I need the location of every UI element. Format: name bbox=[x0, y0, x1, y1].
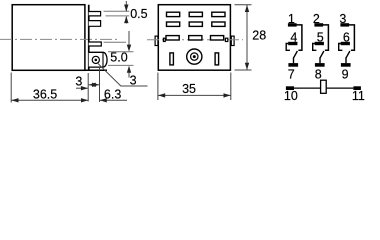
svg-text:10: 10 bbox=[284, 89, 298, 103]
svg-text:11: 11 bbox=[352, 89, 365, 103]
svg-text:6: 6 bbox=[343, 31, 350, 45]
svg-text:6.3: 6.3 bbox=[104, 88, 121, 102]
svg-text:3: 3 bbox=[339, 12, 346, 26]
svg-text:9: 9 bbox=[342, 67, 349, 81]
svg-text:4: 4 bbox=[290, 31, 297, 45]
svg-text:5: 5 bbox=[317, 31, 324, 45]
svg-text:8: 8 bbox=[315, 67, 322, 81]
svg-text:3: 3 bbox=[130, 73, 137, 87]
svg-text:5.0: 5.0 bbox=[110, 51, 127, 65]
svg-text:7: 7 bbox=[288, 67, 295, 81]
svg-text:35: 35 bbox=[182, 82, 196, 96]
svg-text:3: 3 bbox=[75, 75, 82, 89]
svg-text:28: 28 bbox=[252, 28, 266, 42]
svg-text:2: 2 bbox=[313, 12, 320, 26]
svg-text:0.5: 0.5 bbox=[130, 7, 147, 21]
svg-text:1: 1 bbox=[288, 12, 295, 26]
svg-text:36.5: 36.5 bbox=[33, 87, 57, 101]
